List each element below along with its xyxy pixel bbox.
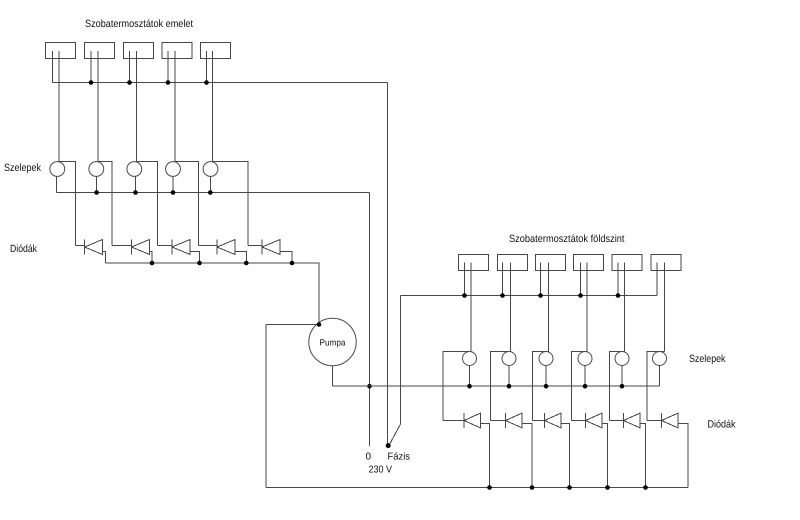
junction T5/phase bus	[204, 80, 209, 85]
wire D1 anode to OR bus	[102, 252, 105, 264]
wire valve V11 node to diode D11 cathode feed	[647, 352, 665, 421]
wire stub to D7 cathode	[491, 420, 506, 422]
junction V7/neutral bus	[507, 384, 512, 389]
wire T7 to phase bus földszint	[502, 263, 504, 296]
wire switch blade to phase bus földszint	[390, 296, 401, 445]
svg-text:Szobatermosztátok földszint: Szobatermosztátok földszint	[509, 233, 625, 245]
wire valve V1 node to diode D1 cathode feed	[59, 162, 76, 246]
valve V4 (emelet)	[166, 162, 181, 177]
junction V8/neutral bus	[544, 384, 549, 389]
valve V2 (emelet)	[89, 162, 104, 177]
diode D8 (földszint)	[545, 413, 562, 428]
wire stub to D2 cathode	[112, 245, 132, 247]
thermostat box T2 (emelet)	[85, 43, 115, 59]
junction V5/valve bus	[208, 190, 213, 195]
wire T5 to phase bus	[206, 51, 208, 83]
junction V3/valve bus	[133, 190, 138, 195]
wire V9 to neutral bus	[584, 366, 586, 387]
wire T9 to phase bus földszint	[580, 263, 582, 296]
svg-text:Szelepek: Szelepek	[4, 162, 42, 174]
wire stub to D4 cathode	[199, 245, 218, 247]
wire V2 to valve bus	[96, 176, 98, 192]
valve V5 (emelet)	[203, 162, 218, 177]
wire T4 to phase bus	[167, 51, 169, 83]
wire V3 to valve bus	[135, 176, 137, 192]
wire T7 output to valve V7	[510, 263, 512, 352]
node Fázis terminal	[386, 443, 391, 448]
valve V9 (földszint)	[578, 352, 592, 366]
valve V1 (emelet)	[50, 162, 65, 177]
wire T6 to phase bus földszint	[464, 263, 466, 296]
wire phase bus emelet (horizontal)	[53, 82, 388, 84]
wire V11 to neutral bus corner	[659, 366, 661, 387]
junction T7/phase bus földszint	[500, 293, 505, 298]
junction T4/phase bus	[166, 80, 171, 85]
junction V9/neutral bus	[583, 384, 588, 389]
wire D7 anode to bottom OR bus	[522, 424, 532, 488]
valve V8 (földszint)	[539, 352, 553, 366]
wire valve V4 node to diode D4 cathode feed	[175, 162, 199, 246]
thermostat box T10 (földszint)	[612, 255, 642, 271]
wire stub to D3 cathode	[157, 245, 172, 247]
wire neutral line 0	[369, 193, 371, 447]
thermostat box T11 (földszint)	[651, 255, 681, 271]
wire stub to D8 cathode	[533, 420, 545, 422]
wire valve V10 node to diode D10 cathode feed	[610, 352, 625, 421]
wire T4 output to valve V4	[174, 51, 176, 162]
wire D3 anode to OR bus	[190, 252, 200, 264]
junction D5/OR bus	[290, 261, 295, 266]
wire stub to D10 cathode	[610, 420, 624, 422]
wire T11 to phase bus földszint	[656, 263, 658, 296]
wire D2 anode to OR bus	[149, 252, 152, 264]
wire valve V2 node to diode D2 cathode feed	[98, 162, 112, 246]
junction T3/phase bus	[127, 80, 132, 85]
thermostat box T1 (emelet)	[46, 43, 76, 59]
wire pump node to left riser	[266, 324, 319, 326]
wire bottom OR bus	[266, 487, 688, 489]
wire T8 output to valve V8	[548, 263, 550, 352]
svg-text:Fázis: Fázis	[388, 452, 411, 463]
wire T6 output to valve V6	[470, 263, 472, 352]
wire phase line Fázis	[387, 83, 389, 444]
junction D3/OR bus	[197, 261, 202, 266]
diode D4 (emelet)	[217, 240, 235, 255]
wire T5 output to valve V5	[212, 51, 214, 162]
wire T10 to phase bus földszint	[617, 263, 619, 296]
thermostat box T9 (földszint)	[574, 255, 604, 271]
thermostat box T3 (emelet)	[124, 43, 154, 59]
wire T8 to phase bus földszint	[540, 263, 542, 296]
junction D7/bottom OR bus	[530, 485, 535, 490]
junction D4/OR bus	[244, 261, 249, 266]
svg-text:0: 0	[366, 451, 372, 462]
wire T1 to phase bus	[52, 51, 54, 83]
wire V1 to valve bus	[55, 176, 57, 192]
wire V5 to valve bus	[209, 176, 211, 192]
diode D1 (emelet)	[85, 240, 103, 255]
valve V10 (földszint)	[615, 352, 629, 366]
wire T9 output to valve V9	[586, 263, 588, 352]
wire valve V3 node to diode D3 cathode feed	[136, 162, 157, 246]
wire stub to D6 cathode	[443, 420, 464, 422]
wire stub to D9 cathode	[572, 420, 586, 422]
wire T2 to phase bus	[90, 51, 92, 83]
wire V8 to neutral bus	[545, 366, 547, 387]
wire V6 to neutral bus	[469, 366, 471, 387]
thermostat box T4 (emelet)	[162, 43, 192, 59]
wire stub to D1 cathode	[76, 245, 85, 247]
junction D2/OR bus	[150, 261, 155, 266]
wire T11 output to valve V11	[664, 263, 666, 352]
junction V4/valve bus	[171, 190, 176, 195]
junction pump node	[317, 322, 322, 327]
wire D10 anode to bottom OR bus	[640, 424, 646, 488]
thermostat box T7 (földszint)	[498, 255, 528, 271]
junction T10/phase bus földszint	[616, 293, 621, 298]
wire phase bus földszint (horizontal)	[401, 295, 658, 297]
junction D8/bottom OR bus	[567, 485, 572, 490]
wire D8 anode to bottom OR bus	[561, 424, 570, 488]
svg-text:Szobatermosztátok emelet: Szobatermosztátok emelet	[85, 18, 193, 30]
pump M1	[309, 318, 356, 365]
diode D3 (emelet)	[172, 240, 190, 255]
wire T2 output to valve V2	[97, 51, 99, 162]
thermostat box T5 (emelet)	[201, 43, 231, 59]
valve V7 (földszint)	[502, 352, 516, 366]
valve V6 (földszint)	[463, 352, 477, 366]
svg-text:Szelepek: Szelepek	[689, 353, 726, 365]
junction T9/phase bus földszint	[578, 293, 583, 298]
svg-text:230 V: 230 V	[369, 465, 393, 476]
diode D7 (földszint)	[506, 413, 523, 428]
wire diode OR bus emelet	[106, 263, 320, 325]
wire D6 anode to bottom OR bus	[481, 424, 490, 488]
junction T6/phase bus földszint	[462, 293, 467, 298]
diode D5 (emelet)	[262, 240, 280, 255]
wire left riser to bottom OR bus	[265, 325, 267, 488]
wire D11 anode to bottom OR bus	[678, 424, 688, 488]
diode D6 (földszint)	[464, 413, 481, 428]
wire T3 output to valve V3	[135, 51, 137, 162]
wire valve V6 node to diode D6 cathode feed	[443, 352, 471, 421]
wire T10 output to valve V10	[624, 263, 626, 352]
wire valve V8 node to diode D8 cathode feed	[533, 352, 549, 421]
wire stub to D11 cathode	[647, 420, 662, 422]
junction D10/bottom OR bus	[643, 485, 648, 490]
wire V7 to neutral bus	[508, 366, 510, 387]
valve V11 (földszint)	[653, 352, 667, 366]
valve V3 (emelet)	[127, 162, 142, 177]
wire pump to neutral bus	[332, 366, 334, 387]
wire T1 output to valve V1	[58, 51, 60, 162]
wire D5 anode to OR bus	[280, 252, 292, 264]
wire valve V9 node to diode D9 cathode feed	[572, 352, 588, 421]
wire D9 anode to bottom OR bus	[602, 424, 608, 488]
diode D10 (földszint)	[624, 413, 641, 428]
svg-text:Diódák: Diódák	[10, 243, 38, 255]
svg-text:Diódák: Diódák	[708, 419, 737, 431]
wire neutral/pump bus (horizontal)	[333, 385, 660, 387]
junction T8/phase bus földszint	[538, 293, 543, 298]
wire T3 to phase bus	[129, 51, 131, 83]
wire valve V7 node to diode D7 cathode feed	[491, 352, 511, 421]
junction V10/neutral bus	[620, 384, 625, 389]
wire V10 to neutral bus	[621, 366, 623, 387]
junction neutral/pump bus	[367, 384, 372, 389]
diode D11 (földszint)	[662, 413, 679, 428]
wire stub to D5 cathode	[248, 245, 262, 247]
wire valve V5 node to diode D5 cathode feed	[213, 162, 249, 246]
thermostat box T8 (földszint)	[536, 255, 566, 271]
junction D6/bottom OR bus	[487, 485, 492, 490]
wire D4 anode to OR bus	[235, 252, 247, 264]
wire neutral valve bus emelet	[56, 192, 369, 194]
junction V2/valve bus	[94, 190, 99, 195]
junction D9/bottom OR bus	[605, 485, 610, 490]
diode D9 (földszint)	[586, 413, 603, 428]
wire V4 to valve bus	[172, 176, 174, 192]
diode D2 (emelet)	[132, 240, 150, 255]
thermostat box T6 (földszint)	[459, 255, 489, 271]
junction T2/phase bus	[89, 80, 94, 85]
junction V6/neutral bus	[467, 384, 472, 389]
svg-text:Pumpa: Pumpa	[320, 338, 346, 348]
